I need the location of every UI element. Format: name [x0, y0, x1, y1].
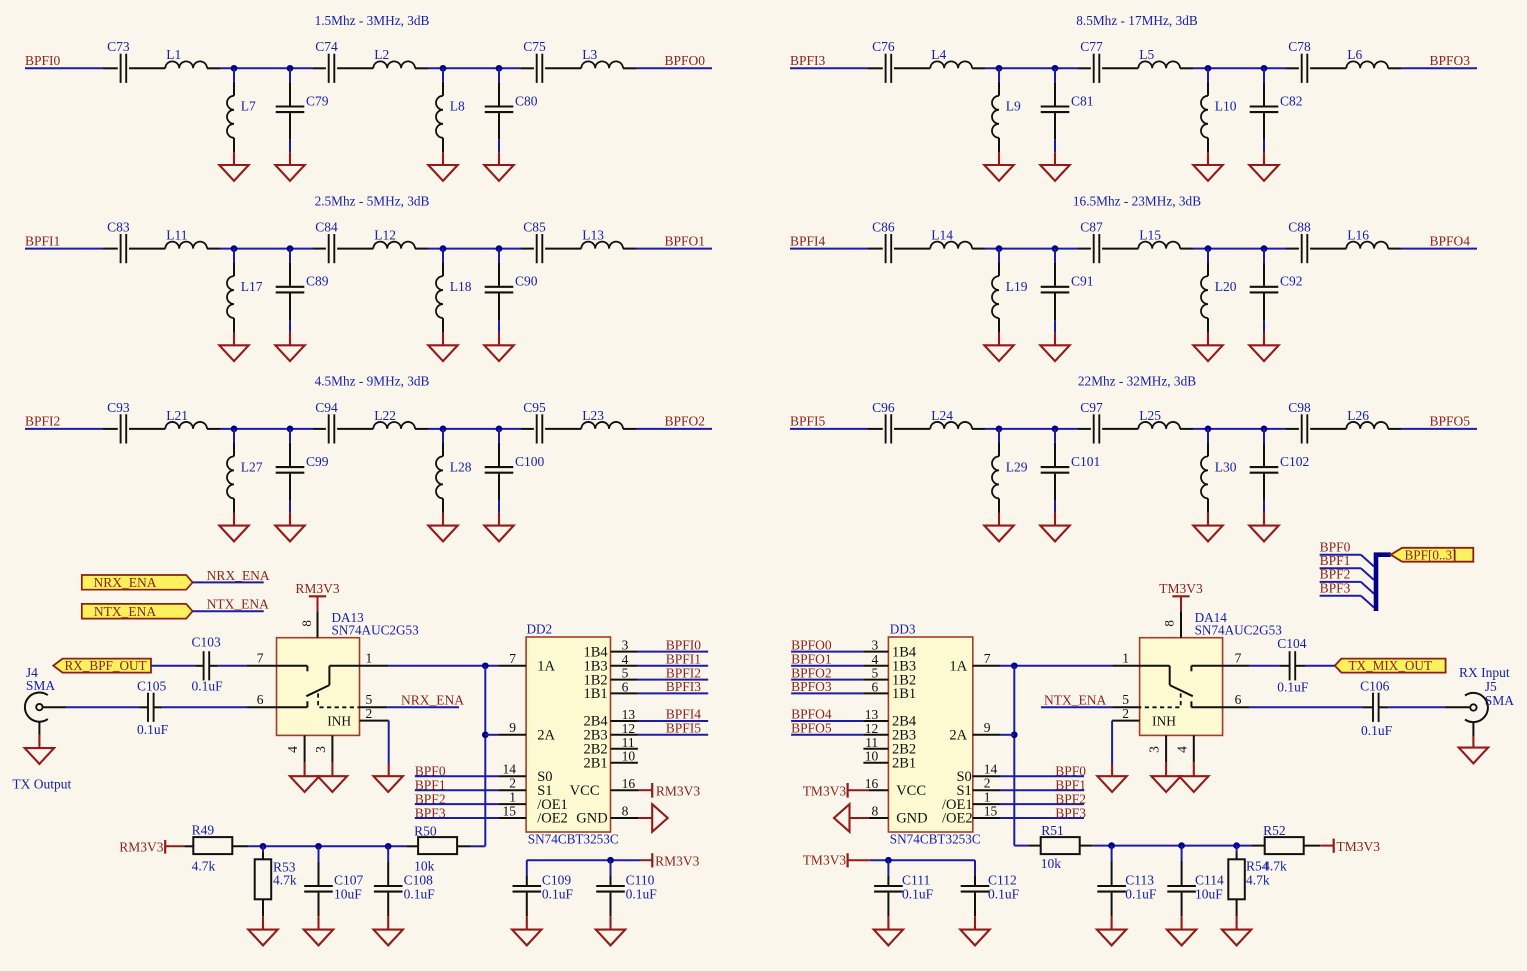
svg-text:L11: L11	[166, 228, 187, 243]
junction	[607, 857, 614, 864]
svg-text:C96: C96	[872, 400, 895, 415]
svg-text:C113: C113	[1125, 872, 1154, 887]
pin 2 DD2	[499, 776, 526, 791]
svg-text:BPFI3: BPFI3	[790, 53, 826, 68]
wire	[1402, 248, 1477, 250]
net label NRX_ENA	[193, 568, 270, 583]
pin name /OE1	[942, 797, 973, 813]
junction	[1261, 245, 1268, 252]
wire	[986, 67, 1078, 69]
wire	[388, 721, 390, 765]
svg-text:2: 2	[984, 776, 991, 791]
pin 2 DD3	[973, 776, 1000, 791]
pin name 1B2	[892, 672, 916, 688]
svg-text:C94: C94	[315, 400, 338, 415]
svg-text:11: 11	[865, 735, 878, 750]
svg-text:15: 15	[984, 803, 998, 818]
wire	[1402, 67, 1477, 69]
inductor L19	[992, 249, 1028, 333]
capacitor C75	[521, 39, 581, 83]
ground	[1097, 764, 1126, 792]
inductor L26	[1346, 408, 1401, 429]
svg-text:NTX_ENA: NTX_ENA	[1044, 693, 1106, 708]
svg-text:2: 2	[1122, 706, 1129, 721]
title 2.5Mhz - 5MHz, 3dB	[315, 193, 430, 208]
svg-text:BPF2: BPF2	[1320, 567, 1351, 582]
svg-text:15: 15	[503, 803, 517, 818]
pin 9 DD2	[499, 720, 526, 735]
title 1.5Mhz - 3MHz, 3dB	[315, 13, 430, 28]
capacitor C85	[521, 220, 581, 264]
svg-text:C83: C83	[107, 220, 130, 235]
svg-text:BPFI4: BPFI4	[790, 233, 826, 248]
port RX_BPF_OUT	[53, 658, 151, 673]
svg-text:6: 6	[622, 679, 629, 694]
svg-text:7: 7	[257, 650, 264, 665]
svg-text:L24: L24	[931, 408, 953, 423]
svg-text:GND: GND	[896, 811, 927, 827]
capacitor C76	[868, 39, 930, 83]
analog switch DA13 SN74AUC2G53	[277, 610, 420, 736]
svg-text:L3: L3	[582, 47, 597, 62]
pin name 2B1	[892, 755, 916, 771]
svg-text:10: 10	[622, 749, 636, 764]
svg-text:0.1uF: 0.1uF	[988, 886, 1020, 901]
wire	[484, 666, 486, 847]
wire	[1194, 248, 1286, 250]
pin name VCC	[896, 783, 926, 799]
svg-text:TM3V3: TM3V3	[803, 783, 847, 798]
svg-text:2A: 2A	[537, 728, 555, 744]
resistor R49	[185, 822, 249, 873]
svg-text:L16: L16	[1347, 228, 1369, 243]
junction	[440, 426, 447, 433]
pin 12 DD2 / net BPFI5	[611, 721, 709, 736]
wire	[248, 845, 407, 847]
svg-text:4: 4	[285, 746, 300, 753]
svg-text:SN74CBT3253C: SN74CBT3253C	[528, 832, 619, 847]
svg-text:BPFI3: BPFI3	[666, 679, 702, 694]
svg-text:L27: L27	[241, 459, 263, 474]
svg-text:R50: R50	[414, 823, 437, 838]
svg-text:C73: C73	[107, 39, 130, 54]
svg-text:BPF0: BPF0	[1055, 764, 1086, 779]
capacitor C107	[304, 846, 363, 916]
capacitor C101	[1041, 429, 1101, 501]
svg-text:DD2: DD2	[527, 621, 553, 636]
svg-text:8.5Mhz - 17MHz, 3dB: 8.5Mhz - 17MHz, 3dB	[1076, 13, 1198, 28]
svg-text:SN74CBT3253C: SN74CBT3253C	[890, 832, 981, 847]
wire	[25, 428, 103, 430]
pin name /OE2	[537, 811, 568, 827]
wire	[986, 248, 1078, 250]
svg-text:L17: L17	[241, 279, 263, 294]
svg-text:L12: L12	[374, 228, 396, 243]
ground	[275, 500, 304, 541]
svg-text:R52: R52	[1263, 823, 1286, 838]
pin 2 DA13	[360, 706, 389, 721]
wire	[790, 248, 868, 250]
pin name S0	[537, 769, 552, 785]
svg-text:BPFO2: BPFO2	[665, 414, 706, 429]
inductor L7	[227, 68, 256, 152]
capacitor C94	[313, 400, 373, 444]
junction	[1178, 842, 1185, 849]
connector J5 SMA	[1445, 665, 1515, 722]
svg-text:2: 2	[509, 776, 516, 791]
svg-text:C92: C92	[1280, 274, 1303, 289]
svg-text:RM3V3: RM3V3	[119, 840, 164, 855]
capacitor C77	[1078, 39, 1138, 83]
pin 11 DD3	[863, 735, 888, 750]
resistor R54	[1228, 846, 1270, 917]
pin name 2B2	[584, 742, 608, 758]
svg-text:4.7k: 4.7k	[192, 858, 216, 873]
power TM3V3	[1320, 839, 1380, 855]
svg-text:0.1uF: 0.1uF	[626, 886, 658, 901]
svg-text:C75: C75	[523, 39, 546, 54]
wire	[637, 428, 712, 430]
capacitor C105	[137, 678, 169, 737]
capacitor C97	[1078, 400, 1138, 444]
svg-text:C97: C97	[1080, 400, 1103, 415]
svg-text:C93: C93	[107, 400, 130, 415]
svg-text:C107: C107	[334, 872, 364, 887]
svg-text:7: 7	[509, 651, 516, 666]
net label BPF0	[415, 764, 499, 779]
svg-text:C78: C78	[1288, 39, 1311, 54]
capacitor C106	[1360, 679, 1393, 739]
ground	[1097, 916, 1126, 945]
svg-text:3: 3	[622, 638, 629, 653]
ground	[428, 333, 457, 362]
svg-text:10uF: 10uF	[1195, 886, 1223, 901]
svg-text:/OE2: /OE2	[537, 811, 568, 827]
ground	[1249, 320, 1278, 361]
capacitor C87	[1078, 220, 1138, 264]
svg-text:2: 2	[366, 706, 373, 721]
svg-text:INH: INH	[327, 714, 351, 729]
svg-text:L23: L23	[582, 408, 604, 423]
inductor L29	[992, 429, 1028, 513]
inductor L4	[930, 47, 985, 68]
inductor L8	[436, 68, 465, 152]
svg-text:1A: 1A	[537, 659, 555, 675]
pin name 2B2	[892, 742, 916, 758]
pin 13 DD2 / net BPFI4	[611, 707, 709, 722]
junction	[1052, 245, 1059, 252]
svg-text:14: 14	[503, 762, 517, 777]
pin name GND	[896, 811, 927, 827]
title 4.5Mhz - 9MHz, 3dB	[315, 374, 430, 389]
power TM3V3	[803, 853, 870, 868]
svg-text:3: 3	[313, 746, 328, 753]
net label BPF1	[1320, 553, 1361, 568]
svg-text:0.1uF: 0.1uF	[1361, 723, 1393, 738]
pin name 2A	[949, 728, 967, 744]
pin name /OE1	[537, 797, 568, 813]
capacitor C86	[868, 220, 930, 264]
capacitor C88	[1286, 220, 1346, 264]
net label BPFO4	[1430, 233, 1471, 248]
svg-text:16: 16	[865, 776, 879, 791]
svg-text:C87: C87	[1080, 220, 1103, 235]
capacitor C100	[485, 429, 545, 501]
label TX Output	[12, 777, 71, 792]
capacitor C109	[513, 860, 574, 916]
wire	[1014, 666, 1028, 846]
pin name 1B3	[892, 659, 916, 675]
net label BPF3	[1320, 580, 1361, 595]
svg-text:BPFI0: BPFI0	[666, 637, 702, 652]
svg-text:9: 9	[509, 720, 516, 735]
pin name 2B4	[584, 714, 609, 730]
svg-text:C111: C111	[902, 872, 930, 887]
svg-text:0.1uF: 0.1uF	[192, 679, 224, 694]
capacitor C104	[1277, 636, 1309, 695]
wire	[637, 67, 712, 69]
svg-text:NTX_ENA: NTX_ENA	[207, 597, 269, 612]
pin name 2A	[537, 728, 555, 744]
capacitor C110	[596, 860, 657, 916]
net label BPFO1	[665, 233, 706, 248]
switch contacts DA13	[277, 666, 360, 729]
inductor L15	[1138, 228, 1193, 249]
port TX_MIX_OUT	[1335, 658, 1446, 673]
svg-text:6: 6	[1235, 692, 1242, 707]
svg-text:L30: L30	[1215, 459, 1237, 474]
ground	[1167, 916, 1196, 945]
inductor L30	[1201, 429, 1237, 513]
junction	[1205, 65, 1212, 72]
pin 6 DD2 / net BPFI3	[611, 679, 709, 694]
net label BPF3	[1000, 805, 1086, 820]
svg-text:RM3V3: RM3V3	[295, 581, 340, 596]
svg-text:5: 5	[1122, 692, 1129, 707]
svg-text:C81: C81	[1071, 93, 1094, 108]
wire	[221, 67, 313, 69]
ground	[484, 320, 513, 361]
capacitor C111	[874, 860, 934, 916]
resistor R51	[1028, 823, 1092, 871]
svg-text:BPFO1: BPFO1	[665, 233, 706, 248]
svg-text:BPFO5: BPFO5	[1430, 414, 1471, 429]
capacitor C103	[192, 635, 224, 694]
net label BPFO3	[1430, 53, 1471, 68]
capacitor C81	[1041, 68, 1094, 140]
pin name 1B4	[892, 644, 917, 660]
pin name 1B1	[584, 686, 608, 702]
junction	[1261, 426, 1268, 433]
svg-text:C110: C110	[626, 872, 655, 887]
svg-text:C106: C106	[1360, 679, 1390, 694]
svg-text:NRX_ENA: NRX_ENA	[207, 568, 270, 583]
svg-text:SMA: SMA	[1485, 693, 1515, 708]
junction	[440, 245, 447, 252]
svg-text:8: 8	[299, 620, 314, 627]
pin name GND	[576, 811, 607, 827]
capacitor C78	[1286, 39, 1346, 83]
svg-text:BPFO4: BPFO4	[1430, 233, 1471, 248]
pin 12 DD3 / net BPFO5	[791, 721, 888, 736]
svg-text:C98: C98	[1288, 400, 1311, 415]
svg-text:BPF1: BPF1	[1055, 778, 1086, 793]
svg-text:C79: C79	[306, 93, 329, 108]
power ground arrow	[639, 804, 668, 832]
junction	[1108, 842, 1115, 849]
svg-text:L7: L7	[241, 99, 256, 114]
pin 1 DD3	[973, 790, 1000, 805]
svg-text:4: 4	[1174, 746, 1189, 753]
junction	[315, 843, 322, 850]
resistor R53	[255, 846, 297, 916]
pin name 2B3	[892, 728, 916, 744]
capacitor C93	[103, 400, 165, 444]
pin name 2B4	[892, 714, 917, 730]
ground	[374, 764, 403, 792]
svg-text:C88: C88	[1288, 220, 1311, 235]
ground	[248, 916, 277, 945]
wire	[429, 248, 521, 250]
pin 11 DD2	[611, 735, 638, 750]
power RM3V3	[639, 783, 701, 798]
ground	[219, 333, 248, 362]
svg-text:13: 13	[865, 707, 879, 722]
power RM3V3	[119, 840, 184, 855]
ground	[484, 500, 513, 541]
wire	[25, 67, 103, 69]
svg-text:0.1uF: 0.1uF	[137, 722, 169, 737]
svg-text:4.7k: 4.7k	[1263, 859, 1287, 874]
svg-text:8: 8	[1162, 620, 1177, 627]
svg-text:C82: C82	[1280, 93, 1303, 108]
wire	[1194, 428, 1286, 430]
inductor L6	[1346, 47, 1401, 68]
port BPF[0..3]	[1391, 548, 1474, 563]
svg-text:1.5Mhz - 3MHz, 3dB: 1.5Mhz - 3MHz, 3dB	[315, 13, 430, 28]
inductor L1	[165, 47, 220, 68]
svg-text:R49: R49	[192, 822, 215, 837]
net label BPFI4	[790, 233, 826, 248]
svg-text:R51: R51	[1041, 823, 1064, 838]
net label BPFO2	[665, 414, 706, 429]
capacitor C114	[1167, 846, 1224, 917]
svg-text:BPFO2: BPFO2	[791, 665, 832, 680]
capacitor C102	[1250, 429, 1310, 501]
svg-text:SN74AUC2G53: SN74AUC2G53	[332, 622, 420, 637]
net label BPF0	[1320, 539, 1361, 554]
svg-text:L19: L19	[1006, 279, 1028, 294]
ground	[1040, 500, 1069, 541]
svg-text:L10: L10	[1215, 99, 1237, 114]
wire	[429, 67, 521, 69]
pin 1 DA14	[1112, 650, 1140, 666]
junction	[1261, 65, 1268, 72]
wire	[790, 67, 868, 69]
inductor L22	[373, 408, 428, 429]
port NRX_ENA	[82, 575, 193, 590]
svg-text:0.1uF: 0.1uF	[1125, 886, 1157, 901]
svg-text:11: 11	[622, 735, 635, 750]
svg-text:C103: C103	[192, 635, 222, 650]
pin 4 DD3 / net BPFO1	[791, 652, 888, 667]
ground	[596, 916, 625, 945]
svg-text:C109: C109	[542, 872, 572, 887]
pin 6 DD3 / net BPFO3	[791, 679, 888, 694]
svg-text:L29: L29	[1006, 459, 1028, 474]
svg-text:9: 9	[984, 720, 991, 735]
svg-text:4.7k: 4.7k	[273, 873, 297, 888]
junction	[231, 245, 238, 252]
svg-text:10: 10	[865, 749, 879, 764]
resistor R50	[407, 823, 471, 873]
resistor R52	[1252, 823, 1320, 874]
ground	[1459, 722, 1488, 763]
pin 1 DD2	[499, 790, 526, 805]
svg-text:4: 4	[871, 652, 878, 667]
ground	[428, 152, 457, 181]
svg-text:RM3V3: RM3V3	[655, 854, 700, 869]
svg-text:C84: C84	[315, 220, 338, 235]
net label BPFO0	[665, 53, 706, 68]
svg-text:L4: L4	[931, 47, 946, 62]
pin 16 DD3	[865, 776, 889, 791]
junction	[385, 843, 392, 850]
wire	[218, 665, 247, 667]
junction	[996, 426, 1003, 433]
pin name /OE2	[942, 811, 973, 827]
svg-text:C99: C99	[306, 454, 329, 469]
inductor L11	[165, 228, 220, 249]
svg-text:16: 16	[622, 776, 636, 791]
svg-text:BPF[0..3]: BPF[0..3]	[1405, 548, 1457, 563]
ground	[960, 916, 989, 945]
svg-text:2B1: 2B1	[584, 755, 608, 771]
svg-text:C105: C105	[137, 678, 167, 693]
capacitor C92	[1250, 249, 1303, 321]
pin name VCC	[570, 783, 600, 799]
wire	[471, 845, 486, 847]
net label BPF1	[1000, 778, 1086, 793]
svg-text:12: 12	[622, 721, 636, 736]
net label BPF2	[1000, 792, 1086, 807]
pin 2 DA14	[1112, 706, 1140, 721]
pin 14 DD2	[499, 762, 526, 777]
power RM3V3	[640, 853, 700, 868]
svg-text:BPFO0: BPFO0	[665, 53, 706, 68]
svg-text:SMA: SMA	[26, 678, 56, 693]
inductor L23	[581, 408, 636, 429]
svg-text:L5: L5	[1139, 47, 1154, 62]
pin 7 DD2	[499, 651, 526, 666]
junction	[996, 65, 1003, 72]
capacitor C83	[103, 220, 165, 264]
capacitor C96	[868, 400, 930, 444]
switch contacts DA14	[1140, 666, 1223, 729]
svg-text:C85: C85	[523, 220, 546, 235]
svg-text:4.5Mhz - 9MHz, 3dB: 4.5Mhz - 9MHz, 3dB	[315, 374, 430, 389]
wire	[151, 665, 195, 667]
net label BPFI1	[25, 233, 60, 248]
svg-text:10uF: 10uF	[334, 886, 362, 901]
wire	[1250, 665, 1279, 667]
junction	[496, 65, 503, 72]
wire	[162, 706, 247, 708]
wire	[1111, 721, 1113, 765]
pin name 1B2	[584, 672, 608, 688]
net label BPFI0	[25, 53, 61, 68]
svg-text:RX Input: RX Input	[1459, 665, 1510, 680]
